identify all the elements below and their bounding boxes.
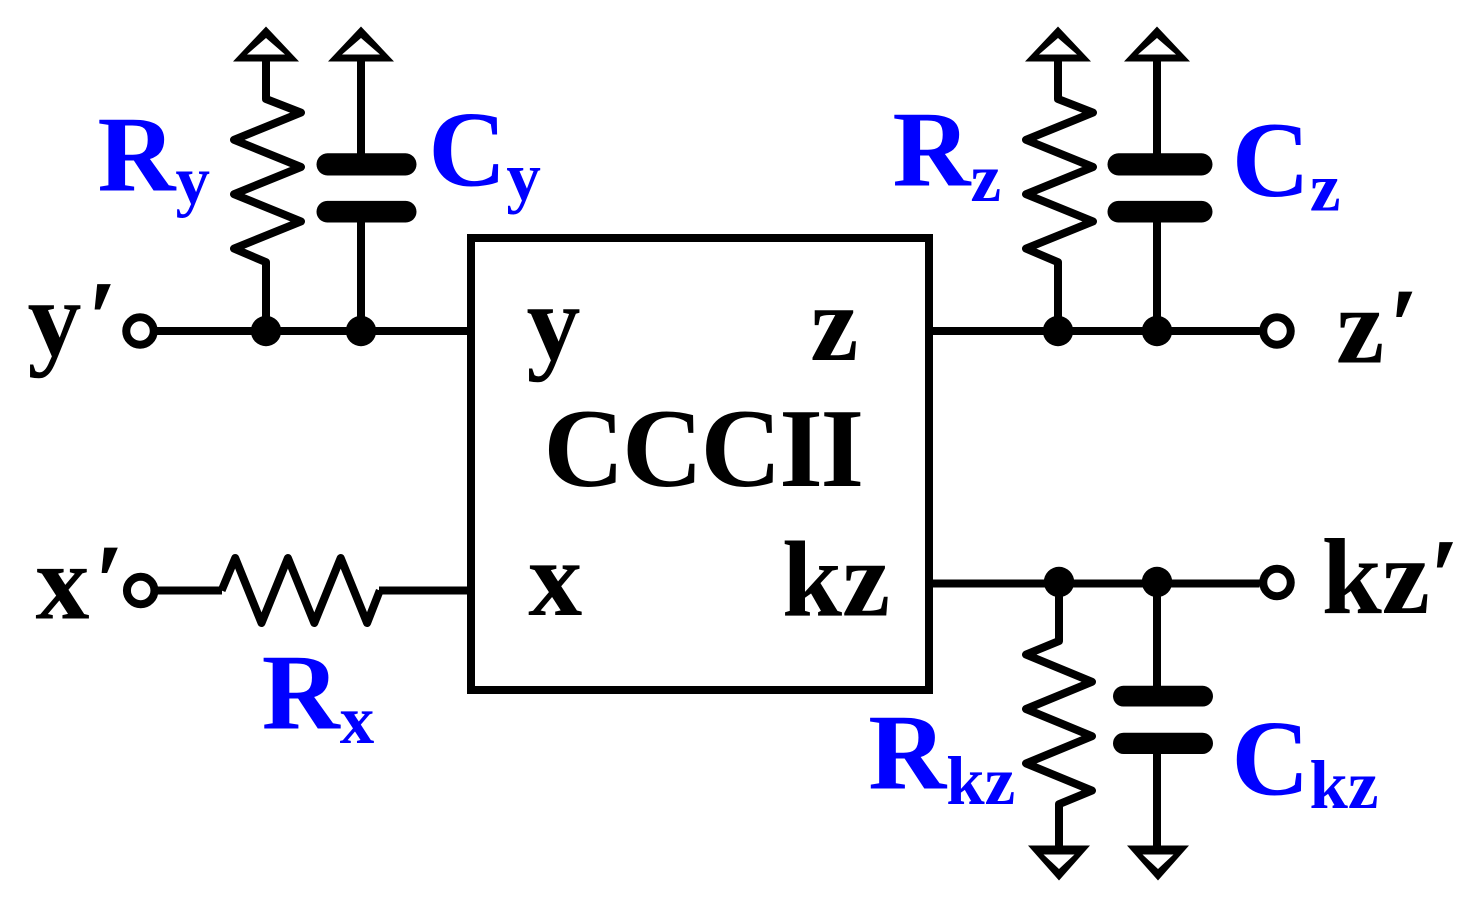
power arrow above Cy — [328, 27, 394, 62]
capacitor Cy — [357, 57, 365, 331]
svg-text:x: x — [528, 520, 582, 639]
terminal kz' open circle — [1263, 569, 1291, 597]
svg-text:y: y — [527, 264, 581, 383]
resistor Rz — [1026, 57, 1093, 331]
svg-text:kz′: kz′ — [1322, 518, 1460, 637]
power arrow above Ry — [233, 27, 299, 62]
wire x' to resistor Rx — [158, 587, 222, 595]
resistor Rkz — [1026, 584, 1092, 850]
svg-text:x′: x′ — [36, 523, 125, 642]
ground arrow below Rkz — [1028, 846, 1090, 881]
op-amp U1 CCCII box — [471, 238, 929, 690]
node junction on z wire (Rz) — [1043, 316, 1073, 346]
terminal y' open circle — [126, 317, 154, 345]
node junction on y wire (Ry) — [251, 316, 281, 346]
resistor Rx — [222, 558, 380, 623]
wire resistor Rx to box pin x — [379, 587, 471, 595]
wire y' to box pin y — [153, 327, 471, 335]
ground arrow below Ckz — [1127, 846, 1189, 881]
power arrow above Rz — [1025, 27, 1091, 62]
node junction on z wire (Cz) — [1142, 316, 1172, 346]
node junction on y wire (Cy) — [346, 316, 376, 346]
svg-text:kz: kz — [782, 521, 890, 640]
terminal z' open circle — [1263, 317, 1291, 345]
power arrow above Cz — [1124, 27, 1190, 62]
svg-text:CCCII: CCCII — [544, 387, 862, 511]
wire box pin kz to kz' — [929, 580, 1260, 588]
svg-text:z′: z′ — [1336, 267, 1419, 386]
resistor Ry — [234, 57, 301, 331]
capacitor Cz — [1153, 57, 1161, 331]
svg-text:z: z — [810, 265, 858, 384]
wire box pin z to z' — [929, 327, 1260, 335]
svg-text:y′: y′ — [28, 260, 118, 379]
node junction on kz wire (Ckz) — [1142, 567, 1172, 597]
capacitor Ckz — [1153, 584, 1161, 850]
terminal x' open circle — [127, 577, 155, 605]
node junction on kz wire (Rkz) — [1044, 567, 1074, 597]
